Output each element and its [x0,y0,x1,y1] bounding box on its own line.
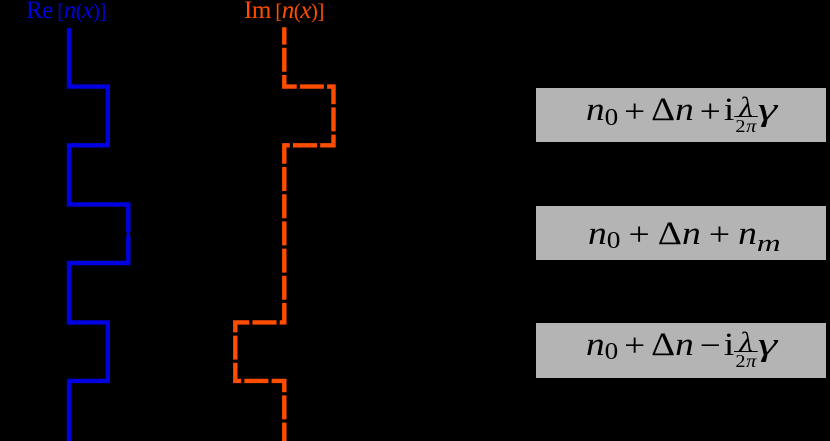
gray box 2: n0 + Δn + nm [536,206,826,260]
orange Im curve (dashed) [235,27,333,441]
label Re[n(x)] [26,0,106,23]
black leader-line notch crossing blue curve [125,232,127,236]
label Im[n(x)] [244,0,324,23]
gray box 1: n0 + Δn + i λ/2π γ [536,88,826,142]
gray box 3: n0 + Δn − i λ/2π γ [536,323,826,378]
